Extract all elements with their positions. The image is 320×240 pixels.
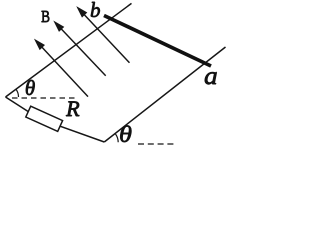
B field arrow 1: [36, 41, 88, 97]
rod ab: [104, 16, 211, 67]
right rail: [104, 47, 225, 142]
label theta right: [119, 123, 132, 146]
label b: [90, 0, 101, 21]
label theta left: [25, 78, 35, 99]
dashed horizontal left: [12, 97, 77, 99]
angle arc left: [16, 89, 19, 97]
B field arrow 3: [78, 8, 130, 63]
wire vertex to resistor: [6, 97, 29, 112]
dashed horizontal right: [138, 143, 176, 145]
label R: [66, 98, 80, 121]
left rail: [6, 3, 132, 97]
angle arc right: [115, 134, 118, 142]
label B: [41, 8, 50, 25]
B field arrow 2: [55, 22, 106, 75]
resistor R box: [26, 106, 63, 131]
label a: [204, 64, 218, 89]
wire resistor to right vertex: [60, 126, 104, 142]
